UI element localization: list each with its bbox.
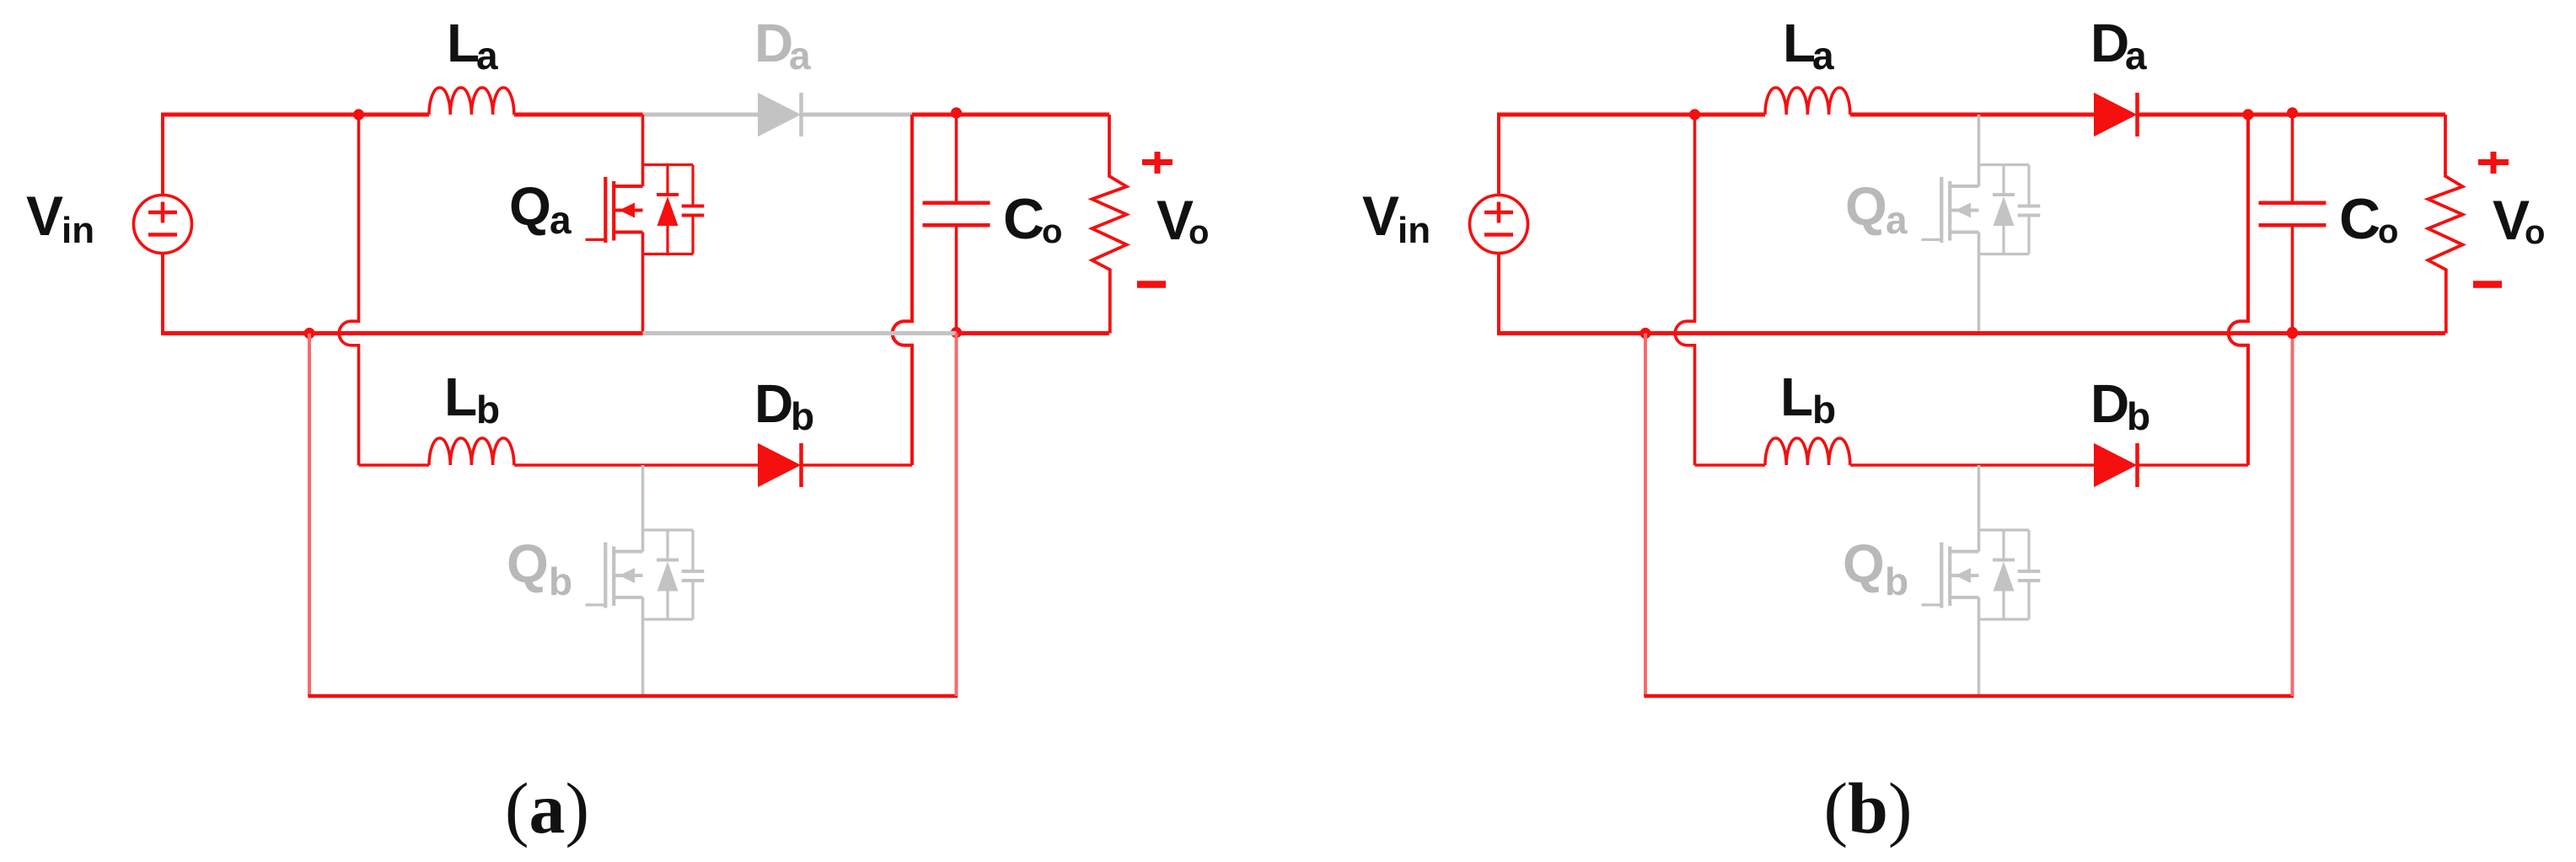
diode Da (759, 93, 802, 137)
svg-text:Da: Da (2090, 13, 2147, 78)
wire La to Qa drain node (514, 113, 643, 117)
wire top rail left (161, 113, 359, 117)
label minus sign (1137, 281, 1166, 288)
wire Lb to Db anode-b (1850, 463, 2095, 467)
svg-text:Vin: Vin (1362, 185, 1430, 251)
label plus sign-b (2478, 152, 2509, 174)
wire Vin-b top lead (1497, 115, 1500, 195)
svg-text:Da: Da (754, 13, 811, 78)
wire Db cathode to right vertical (802, 463, 913, 467)
wire Qb-b drain (1978, 465, 1981, 552)
svg-text:Vo: Vo (2493, 189, 2545, 251)
wire output node to Db rail with hop-b (2229, 115, 2248, 465)
wire Qa node to Da anode-b (1979, 113, 2096, 117)
resistor load Vo (1092, 115, 1127, 334)
wire Qa node to Da anode (643, 113, 759, 117)
wire mid rail output-b (2293, 331, 2446, 335)
wire mid rail Qa source to Co (643, 331, 957, 335)
node Co top junction-b (2287, 107, 2298, 118)
svg-text:Qa: Qa (509, 176, 572, 242)
wire bottom rail-b (1644, 694, 2294, 699)
svg-text:Vo: Vo (1157, 189, 1209, 251)
wire Lb rail left (359, 463, 430, 467)
wire Db cathode to right vertical-b (2138, 463, 2249, 467)
svg-text:(b): (b) (1823, 768, 1912, 849)
wire Qb source (641, 597, 645, 696)
wire mid junction down-b (1644, 334, 1647, 697)
wire top rail to La-b (1695, 113, 1766, 117)
wire output node to Db rail with hop (893, 115, 912, 465)
wire top junction to Lb rail with hop (339, 115, 358, 465)
wire top rail output-b (2248, 113, 2445, 117)
svg-text:(a): (a) (505, 768, 589, 849)
wire mid rail left (161, 331, 643, 335)
wire Lb rail left-b (1695, 463, 1766, 467)
wire Vin top lead (161, 115, 164, 195)
wire Co bottom junction down-b (2291, 334, 2294, 697)
svg-text:Co: Co (1003, 187, 1062, 251)
node Co bottom junction-b (2287, 327, 2298, 338)
wire mid rail left-b (1497, 331, 1979, 335)
node top junction-b (1689, 109, 1700, 120)
wire Qa source (641, 233, 645, 334)
wire top rail output (912, 113, 1109, 117)
voltage source Vin (134, 195, 192, 254)
inductor La (429, 88, 514, 115)
resistor load Vo-b (2428, 115, 2463, 334)
wire top rail left-b (1497, 113, 1695, 117)
wire Da cathode to output node (802, 113, 913, 117)
wire Qa drain (641, 115, 645, 186)
wire mid junction down (308, 334, 311, 697)
node Da cathode junction-b (2242, 109, 2253, 120)
svg-text:Db: Db (754, 373, 814, 438)
wire Qa-b drain (1978, 115, 1981, 186)
wire top rail to La (359, 113, 430, 117)
diode Db (759, 443, 802, 487)
svg-text:Qb: Qb (1843, 533, 1908, 603)
voltage source Vin-b (1470, 195, 1528, 254)
node top junction (353, 109, 364, 120)
wire mid rail Qa source to Co-b (1979, 331, 2293, 335)
wire Qa-b source (1978, 233, 1981, 334)
svg-text:Lb: Lb (444, 367, 500, 431)
svg-text:Qa: Qa (1845, 176, 1908, 242)
diode Db-b (2095, 443, 2138, 487)
transistor Qa-b (1922, 165, 2041, 254)
node Co top junction (951, 107, 962, 118)
capacitor Co-b (2259, 115, 2326, 334)
inductor Lb (429, 438, 514, 465)
node Co bottom junction (951, 327, 962, 338)
wire mid rail output (957, 331, 1110, 335)
inductor La-b (1765, 88, 1850, 115)
label plus sign (1142, 152, 1173, 174)
svg-text:Lb: Lb (1780, 367, 1836, 431)
wire Lb to Db anode (514, 463, 759, 467)
svg-text:Vin: Vin (26, 185, 94, 251)
wire Vin-b bottom lead (1497, 254, 1500, 334)
transistor Qa (586, 165, 705, 254)
diode Da-b (2095, 93, 2138, 137)
label minus sign-b (2473, 281, 2502, 288)
node mid junction (303, 328, 314, 339)
wire Co bottom junction down (955, 334, 958, 697)
wire bottom rail (308, 694, 958, 699)
wire Qb-b source (1978, 597, 1981, 696)
transistor Qb-b (1922, 530, 2041, 619)
node mid output junction-b (2287, 328, 2298, 339)
capacitor Co (923, 115, 990, 334)
svg-text:La: La (447, 13, 498, 78)
inductor Lb-b (1765, 438, 1850, 465)
transistor Qb (586, 530, 705, 619)
wire La to Qa drain node-b (1850, 113, 1979, 117)
wire Da cathode to output node-b (2138, 113, 2249, 117)
svg-text:Co: Co (2339, 187, 2398, 251)
wire Vin bottom lead (161, 254, 164, 334)
svg-text:Db: Db (2090, 373, 2150, 438)
wire Qb drain (641, 465, 645, 552)
svg-text:La: La (1783, 13, 1834, 78)
wire top junction to Lb rail with hop-b (1675, 115, 1694, 465)
node mid junction-b (1640, 328, 1650, 339)
svg-text:Qb: Qb (507, 533, 572, 603)
